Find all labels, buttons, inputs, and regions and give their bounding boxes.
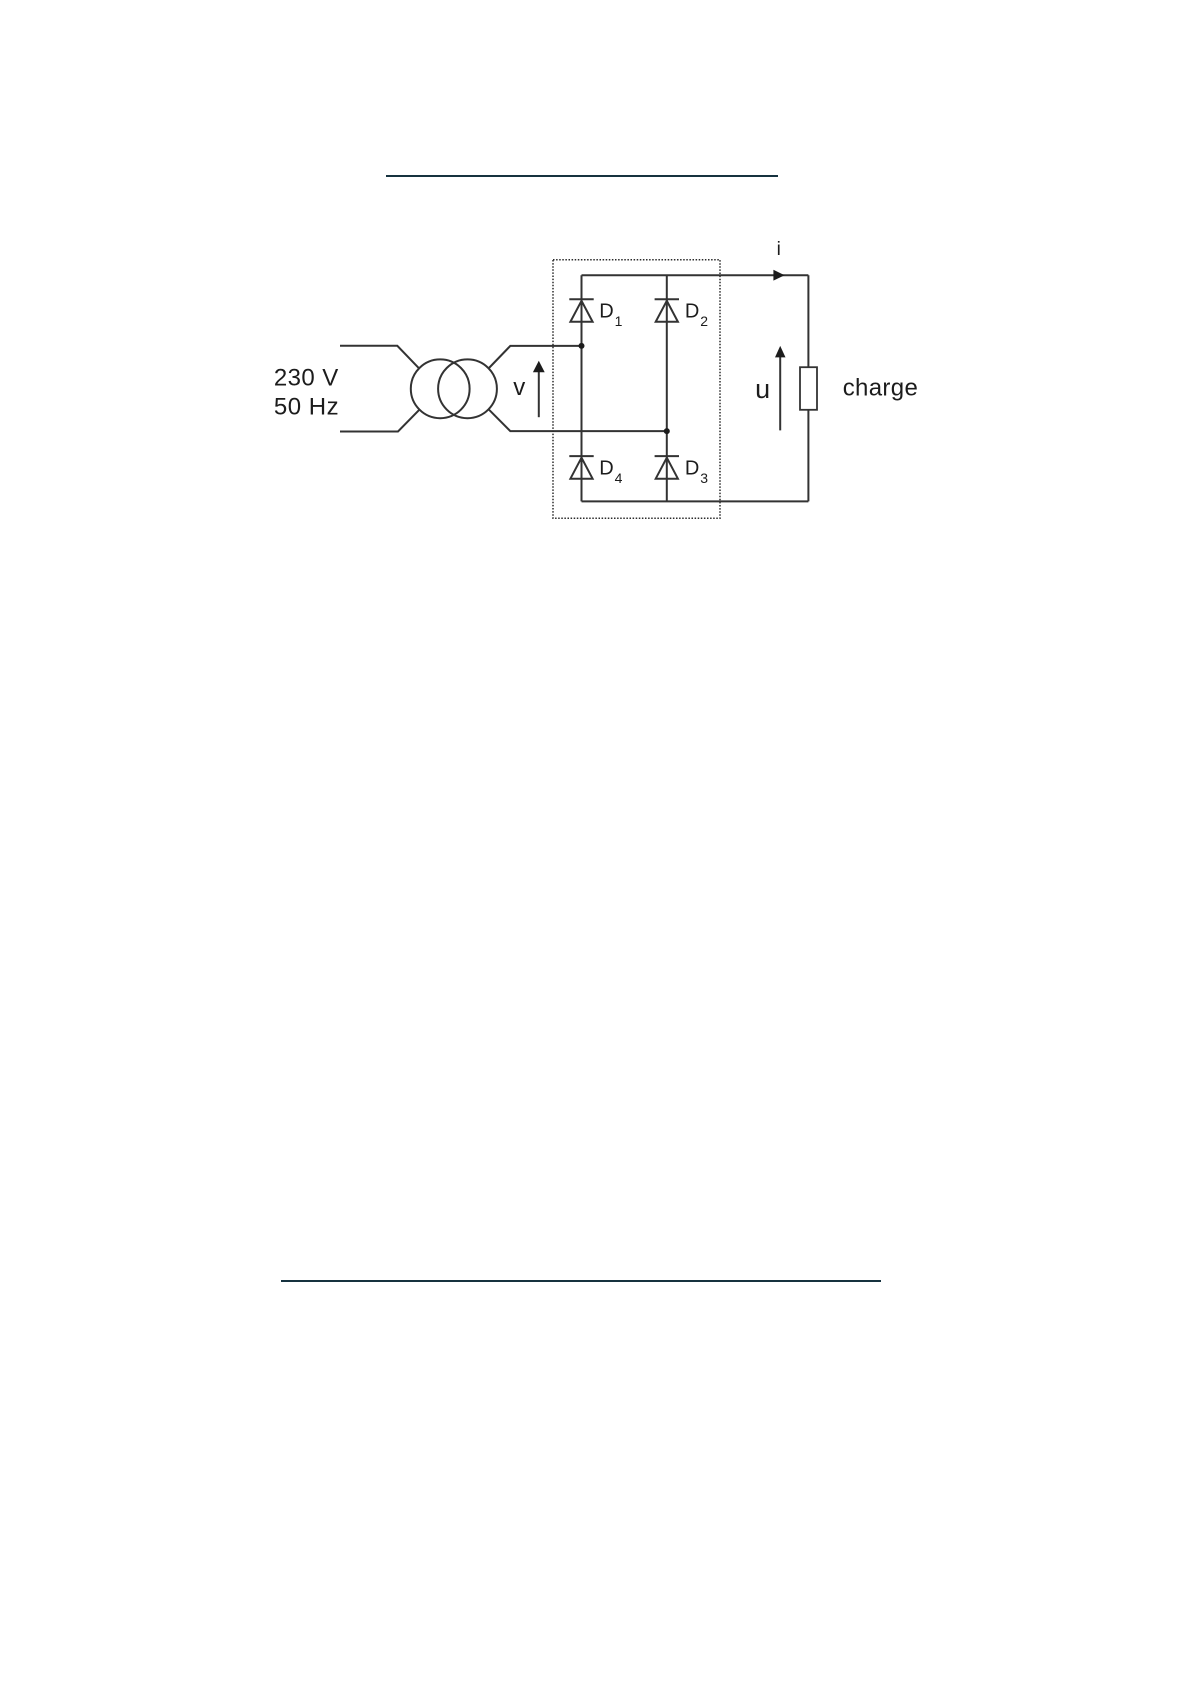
node secondary bottom junction [664,428,670,434]
svg-text:3: 3 [700,470,708,486]
wire primary bottom [340,409,420,431]
label charge [843,375,918,402]
wire secondary bottom [489,409,667,431]
diode D4 [569,456,593,479]
wire bottom bus [582,500,809,502]
arrow v [533,361,545,418]
arrow u [775,346,786,431]
svg-text:charge: charge [843,375,918,402]
svg-text:230 V: 230 V [274,364,339,391]
wire primary top [340,346,420,369]
svg-text:v: v [513,374,525,401]
svg-text:i: i [777,239,781,260]
transformer T1 primary winding [411,359,470,418]
svg-text:D: D [599,457,613,479]
wire load right side [807,275,809,501]
diode D2 [655,299,679,322]
svg-text:D: D [685,300,699,322]
svg-text:50 Hz: 50 Hz [274,394,339,421]
label D1 [599,300,622,329]
node secondary top junction [579,343,585,349]
label 230 V 50 Hz [274,364,339,420]
label D4 [599,457,622,486]
label v [513,374,525,401]
label u [755,374,770,404]
wire left branch [581,275,583,501]
svg-text:D: D [599,300,613,322]
bridge dotted box [553,260,720,519]
wire secondary top [489,346,582,369]
arrow i [773,270,784,281]
svg-text:2: 2 [700,313,708,329]
svg-text:1: 1 [615,313,623,329]
label D2 [685,300,708,329]
resistor charge load [800,367,817,410]
label i [777,239,781,260]
wire middle branch [666,275,668,501]
bottom section rule [281,1280,881,1282]
svg-text:u: u [755,374,770,404]
label D3 [685,457,708,486]
svg-text:D: D [685,457,699,479]
diode D3 [655,456,679,479]
diode D1 [569,299,593,322]
wire top bus [582,274,809,276]
transformer T1 secondary winding [438,359,497,418]
top title rule [386,175,778,177]
svg-text:4: 4 [615,470,623,486]
